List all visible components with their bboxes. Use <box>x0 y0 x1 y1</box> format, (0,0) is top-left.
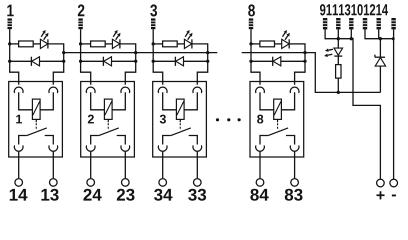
mechanical link K1 <box>35 119 37 129</box>
wire: resistor to LED channel 3 <box>177 43 184 45</box>
socket arc bottom-left K8 <box>256 145 265 151</box>
wire: terminal 14 stub <box>393 29 395 39</box>
wire: contact output right channel 2 <box>124 151 126 178</box>
wire: left bend into relay channel 1 <box>10 72 19 85</box>
wire: resistor to common bus <box>337 78 339 92</box>
terminal circle 13 <box>50 179 58 187</box>
wire: row A stub channel 1 <box>10 43 19 45</box>
resistor R2 <box>91 41 106 47</box>
mechanical link K3 <box>179 119 181 129</box>
wire: contact output left channel 2 <box>90 151 92 178</box>
wire: common bus segment channels 1-3 <box>64 52 218 54</box>
wire: zener cathode <box>379 39 381 58</box>
terminal 1 <box>8 18 12 29</box>
relay K8 box <box>250 82 304 158</box>
wire: coil feed right K3 <box>184 92 197 110</box>
LED D2 <box>112 30 120 49</box>
terminal circle 34 <box>159 179 167 187</box>
contact K2 <box>91 128 126 145</box>
wire: right bend into relay channel 1 <box>53 72 63 85</box>
wire: right bend into relay channel 2 <box>125 72 135 85</box>
wire: contact output left channel 1 <box>18 151 20 178</box>
socket arc bottom-left K1 <box>14 145 23 151</box>
socket arc top-right K1 <box>49 87 58 93</box>
terminal 84 label <box>250 189 268 201</box>
relay K3 number label <box>160 115 166 124</box>
wire: resistor to LED channel 1 <box>33 43 40 45</box>
wire: left bend into relay channel 8 <box>251 72 260 85</box>
socket arc bottom-left K2 <box>86 145 95 151</box>
diode V1 <box>31 57 39 66</box>
relay K2 number label <box>88 115 94 124</box>
terminal circle 14 <box>15 179 23 187</box>
wire: LED to right rail channel 1 <box>48 43 64 45</box>
LED D3 <box>184 30 192 49</box>
wire: coil feed right K8 <box>281 92 294 110</box>
socket arc top-right K2 <box>121 87 130 93</box>
relay coil K8 <box>274 99 282 119</box>
wire: right rail channel 8 <box>303 43 306 72</box>
wire: input rail channel 3 <box>152 29 155 72</box>
socket arc top-left K1 <box>14 87 23 93</box>
wire: input rail channel 8 <box>249 29 252 72</box>
wire: resistor to LED channel 2 <box>105 43 112 45</box>
wire: diode row left channel 2 <box>81 60 104 62</box>
wire: LED to right rail channel 3 <box>192 43 208 45</box>
socket arc bottom-right K2 <box>121 145 130 151</box>
wire: zener to common bus <box>379 66 381 92</box>
contact K1 <box>19 128 54 145</box>
socket arc bottom-right K8 <box>290 145 299 151</box>
terminal 8 <box>249 18 253 29</box>
zener diode <box>375 55 386 67</box>
terminal 2 <box>78 18 82 29</box>
socket arc top-right K3 <box>193 87 202 93</box>
wire: right rail channel 1 <box>62 43 65 72</box>
terminal 3 <box>151 18 155 29</box>
LED D8 <box>282 30 290 49</box>
wire: diode to right rail channel 2 <box>112 60 136 62</box>
relay coil K1 <box>32 99 40 119</box>
wire: diode row left channel 3 <box>153 60 175 62</box>
wire: right bend into relay channel 3 <box>197 72 207 85</box>
terminal circle - <box>390 179 398 187</box>
LED D1 <box>40 30 48 49</box>
socket arc bottom-left K3 <box>158 145 167 151</box>
terminal circle 83 <box>291 179 299 187</box>
terminal 14 <box>391 18 395 29</box>
resistor power indicator <box>336 65 341 79</box>
diode V2 <box>103 57 111 66</box>
contact K3 <box>163 128 198 145</box>
wire: left bend into relay channel 3 <box>153 72 163 85</box>
wire: coil feed left K8 <box>260 92 274 110</box>
socket arc top-right K8 <box>290 87 299 93</box>
wire: diode to right rail channel 1 <box>40 60 64 62</box>
wire: contact output left channel 3 <box>162 151 164 178</box>
terminal 13 <box>349 18 353 29</box>
terminal 34 label <box>154 189 172 201</box>
socket arc top-left K3 <box>158 87 167 93</box>
wire: coil feed left K2 <box>91 92 105 110</box>
wire: terminal 12 stub <box>378 29 380 39</box>
terminal 10 <box>363 18 367 29</box>
wire: diode row left channel 8 <box>251 60 273 62</box>
wire: contact output right channel 3 <box>196 151 198 178</box>
relay K1 number label <box>16 115 22 124</box>
diode V3 <box>175 57 183 66</box>
terminal circle 84 <box>256 179 264 187</box>
terminal circle 23 <box>122 179 130 187</box>
terminal 14 label <box>10 189 28 201</box>
wire: right rail channel 3 <box>206 43 209 72</box>
wire: row A stub channel 2 <box>81 43 91 45</box>
terminal 23 label <box>117 189 135 201</box>
wire: contact output left channel 8 <box>259 151 261 178</box>
terminal 33 label <box>188 189 206 201</box>
terminal 83 label <box>285 189 303 201</box>
terminal 2 label <box>78 4 85 16</box>
wire: terminal 9 stub <box>324 29 326 39</box>
wire: left bend into relay channel 2 <box>81 72 91 85</box>
wire: coil feed left K3 <box>163 92 177 110</box>
relay coil K2 <box>104 99 112 119</box>
wire: bus terminals 10/12/14 <box>365 37 395 179</box>
wire: diode to right rail channel 8 <box>281 60 305 62</box>
terminal 11 <box>336 18 340 29</box>
terminal 9 <box>323 18 327 29</box>
terminal 3 label <box>150 4 157 16</box>
ellipsis dots (channels 4-7 omitted) <box>216 118 241 121</box>
LED power indicator <box>324 48 343 57</box>
relay K8 number label <box>257 115 263 124</box>
socket arc top-left K2 <box>86 87 95 93</box>
terminal circle 24 <box>87 179 95 187</box>
wire: right bend into relay channel 8 <box>295 72 305 85</box>
wire: terminal 10 stub <box>364 29 366 39</box>
relay K2 box <box>81 82 135 158</box>
terminal circle + <box>377 179 385 187</box>
wire: contact output right channel 8 <box>294 151 296 178</box>
relay coil K3 <box>176 99 184 119</box>
wire: coil feed right K2 <box>112 92 125 110</box>
diode V8 <box>273 57 281 66</box>
terminal 12 <box>377 18 381 29</box>
wire: contact output right channel 1 <box>52 151 54 178</box>
wire: row A stub channel 3 <box>153 43 162 45</box>
wire: common bus segment channel 8 to right section <box>242 53 381 94</box>
mechanical link K8 <box>277 119 279 129</box>
terminal 1 label <box>7 5 13 17</box>
wire: row A stub channel 8 <box>251 43 260 45</box>
wire: LED chain top <box>337 39 339 48</box>
wire: terminal 13 stub <box>350 29 352 39</box>
contact K8 <box>260 128 295 145</box>
terminal 8 label <box>248 4 255 16</box>
wire: resistor to LED channel 8 <box>275 43 282 45</box>
label + <box>377 191 385 199</box>
socket arc bottom-right K1 <box>49 145 58 151</box>
relay K1 box <box>9 82 63 158</box>
wire: terminal 11 stub <box>337 29 339 39</box>
terminal 24 label <box>83 189 101 201</box>
label - <box>392 194 396 196</box>
resistor R1 <box>19 41 34 47</box>
wire: bus terminals 9/11/13 <box>325 37 380 179</box>
wire: coil feed left K1 <box>19 92 33 110</box>
mechanical link K2 <box>107 119 109 129</box>
terminal 13 label <box>41 189 58 201</box>
terminal group labels 9 11 13 10 12 14 <box>320 4 388 15</box>
wire: diode row left channel 1 <box>10 60 32 62</box>
resistor R3 <box>163 41 178 47</box>
wire: input rail channel 1 <box>8 29 11 72</box>
wire: LED to resistor <box>337 56 339 65</box>
terminal circle 33 <box>194 179 202 187</box>
wire: right rail channel 2 <box>134 43 137 72</box>
wire: LED to right rail channel 8 <box>289 43 305 45</box>
relay K3 box <box>153 82 207 158</box>
resistor R8 <box>260 41 275 47</box>
wire: input rail channel 2 <box>79 29 82 72</box>
socket arc top-left K8 <box>256 87 265 93</box>
socket arc bottom-right K3 <box>193 145 202 151</box>
wire: coil feed right K1 <box>40 92 53 110</box>
wire: diode to right rail channel 3 <box>184 60 208 62</box>
wire: LED to right rail channel 2 <box>120 43 136 45</box>
